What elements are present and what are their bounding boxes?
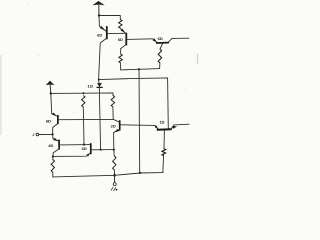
node: Q5 base right [113,149,115,151]
node: ground junction [113,174,116,177]
resistor R4 (from rail right end) [112,93,114,95]
resistor R8 (Q8 base) [162,156,165,173]
diode D1 (1&#937;) [98,79,100,81]
svg-text:6D: 6D [118,37,123,42]
svg-text:1Ω: 1Ω [87,83,93,88]
resistor R3 (Q3 base) [159,63,161,69]
bottom rail [53,173,163,177]
resistor R5 [82,96,85,108]
node: top supply junction [98,14,100,16]
transistor Q6 (6D, lower middle) [89,143,91,146]
svg-text:6D: 6D [158,36,163,41]
svg-text:6D: 6D [46,118,51,123]
resistor R1 [119,20,122,29]
transistor Q3 (6D, upper right) [153,39,158,43]
svg-text:4D: 4D [48,143,53,148]
transistor Q5 (4D, lower left PNP) [52,134,54,138]
svg-text:2D: 2D [111,124,116,129]
resistor R6 (tail) [52,157,54,160]
wire R1 to Q2 collector [119,27,121,30]
paper edge streaks and specks [0,55,2,135]
power arrow +V left [46,81,55,86]
svg-text:6D: 6D [82,146,87,151]
svg-text:1D: 1D [159,119,164,124]
node: Q5 emitter junction [52,155,54,157]
power arrow +V top [92,1,105,5]
svg-text:J: J [32,133,34,137]
wire tail vertical [138,69,141,173]
transistor Q7 (2D, middle NPN) [113,119,119,122]
node: input junction [52,133,54,135]
transistor Q4 (6D, input PNP) [50,93,53,113]
svg-text:6D: 6D [97,33,102,38]
node: Q5 base left [100,149,102,151]
node: tail to rail [139,172,141,174]
wire emitter coupling [53,153,90,156]
resistor R7 (Q5 base bias) [113,150,115,156]
wire R2 to node [121,63,160,70]
ground terminal [114,175,116,182]
wire supply to R1 [99,15,120,19]
wire R5 to Q5 node [82,107,85,145]
transistor Q1 (6D, upper left PNP) [98,16,100,27]
paper speckle [66,32,67,33]
power rail [51,92,113,94]
node R5 top [82,92,84,94]
node: tail junction [138,68,140,70]
resistor R2 (Q2 emitter) [119,54,122,63]
node: left supply junction [50,92,52,94]
wire diode node to Q6 collector [99,78,169,128]
transistor Q2 (6D, upper middle PNP) [121,29,126,34]
transistor Q8 (1D, output) [155,126,158,130]
